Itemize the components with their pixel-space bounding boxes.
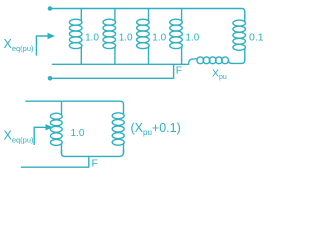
svg-text:F: F: [92, 158, 98, 170]
svg-text:0.1: 0.1: [249, 32, 264, 44]
svg-text:F: F: [176, 65, 182, 77]
svg-text:(Xpu+0.1): (Xpu+0.1): [131, 121, 181, 137]
svg-text:1.0: 1.0: [185, 33, 199, 44]
svg-text:1.0: 1.0: [152, 33, 166, 44]
svg-text:1.0: 1.0: [119, 33, 133, 44]
svg-text:1.0: 1.0: [85, 33, 99, 44]
svg-text:1.0: 1.0: [71, 128, 85, 139]
